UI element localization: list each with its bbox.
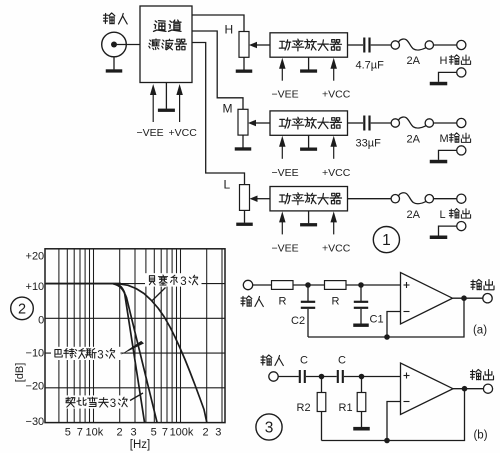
minus input marker (b): [404, 401, 410, 403]
svg-text:H: H: [225, 23, 234, 37]
channel filter box U1: [140, 6, 192, 83]
x axis labels Hz: [65, 427, 222, 439]
potentiometer M: [238, 109, 248, 135]
label power-amplifier text H: [279, 39, 341, 51]
resistor R1 (b): [357, 377, 366, 428]
label M output: [440, 133, 471, 145]
potentiometer H: [239, 32, 249, 58]
svg-text:+VCC: +VCC: [169, 127, 198, 139]
svg-text:C2: C2: [291, 315, 305, 327]
svg-text:+20: +20: [26, 250, 45, 262]
svg-text:2A: 2A: [407, 209, 421, 221]
wire filter to L pot: [192, 43, 245, 185]
ground stub under amp L: [300, 211, 317, 227]
output terminal M: [457, 118, 466, 127]
wire R to R (a): [293, 284, 325, 286]
svg-text:−10: −10: [26, 348, 45, 360]
resistor R first (a): [272, 281, 294, 290]
capacitor C second (b): [338, 370, 343, 383]
output wire (b): [453, 388, 483, 390]
pointer chebyshev label to curve: [130, 393, 143, 401]
fuse 2A (H): [391, 39, 433, 50]
svg-text:−20: −20: [26, 381, 45, 393]
ground stub under filter: [158, 83, 175, 112]
circled number 3: [256, 414, 282, 440]
svg-text:R: R: [279, 296, 287, 308]
svg-text:(a): (a): [473, 325, 487, 337]
circled number 1: [373, 227, 399, 253]
capacitor C1 (a): [354, 285, 368, 324]
wire filter to H pot: [192, 15, 244, 32]
wire amp M to capacitor: [348, 122, 364, 124]
op-amp U1 (a): [401, 273, 453, 325]
output terminal (a): [483, 294, 492, 303]
wire amp H to capacitor: [348, 44, 364, 46]
wire R to opamp (a): [346, 284, 401, 286]
svg-text:L: L: [224, 178, 231, 192]
svg-text:4.7µF: 4.7µF: [356, 60, 385, 72]
ground at output M: [430, 150, 457, 163]
output terminal (b): [483, 384, 492, 393]
power arrow +VCC amp L: [333, 220, 335, 234]
node feedback junction (b): [384, 438, 390, 444]
svg-text:7: 7: [77, 427, 83, 439]
input connector J1: [102, 32, 127, 57]
wire fuse to output M: [434, 122, 457, 124]
svg-text:[Hz]: [Hz]: [130, 439, 150, 451]
node junction 2 (b): [359, 374, 365, 380]
ground below pot L: [236, 210, 253, 226]
svg-text:2: 2: [18, 302, 26, 318]
wire C to opamp (b): [344, 376, 401, 378]
ground below pot M: [235, 135, 252, 151]
svg-text:0: 0: [38, 314, 44, 326]
power arrow +VCC into filter: [179, 93, 181, 122]
resistor R second (a): [325, 281, 347, 290]
ground below input connector: [106, 57, 123, 73]
svg-text:M: M: [440, 133, 449, 145]
node junction 1 (a): [305, 282, 311, 288]
label output (a): [471, 280, 494, 290]
plus input marker (b): [404, 373, 410, 379]
power arrow +VCC amp H: [333, 67, 335, 81]
svg-text:C1: C1: [370, 314, 384, 326]
op-amp U2 (b): [401, 363, 454, 415]
wire input to C (b): [278, 376, 299, 378]
feedback wire minus input (b): [387, 402, 401, 441]
svg-text:+VCC: +VCC: [322, 167, 351, 179]
graph horizontal gridlines: [45, 284, 225, 388]
frequency response graph frame: [45, 249, 225, 423]
svg-text:H: H: [440, 55, 448, 67]
svg-text:10k: 10k: [86, 427, 104, 439]
label butterworth (ba-te-wo-si 3 ci): [51, 347, 121, 362]
power amplifier M: [270, 111, 348, 135]
power arrow -VEE amp H: [281, 67, 283, 81]
output terminal H: [457, 40, 466, 49]
plus input marker (a): [404, 282, 410, 288]
label [dB] rotated: [14, 363, 26, 383]
power arrow -VEE into filter: [152, 93, 154, 122]
fuse 2A (L): [391, 193, 433, 204]
ground at output H: [430, 72, 457, 85]
power arrow +VCC amp M: [333, 145, 335, 159]
svg-text:L: L: [440, 209, 446, 221]
node junction 1 (b): [319, 374, 325, 380]
resistor R2 (b): [317, 377, 326, 441]
svg-text:5: 5: [65, 427, 71, 439]
y axis labels dB: [26, 250, 45, 428]
label L output: [440, 209, 471, 221]
svg-text:33µF: 33µF: [356, 138, 382, 150]
svg-text:−VEE: −VEE: [272, 242, 299, 254]
input terminal (b): [269, 372, 278, 381]
svg-text:3: 3: [97, 349, 103, 361]
svg-text:2: 2: [202, 427, 208, 439]
output wire (a): [453, 297, 483, 299]
wire input to filter: [114, 44, 140, 46]
svg-text:5: 5: [151, 427, 157, 439]
circled number 2: [11, 297, 34, 320]
power amplifier L: [270, 187, 348, 211]
label channel-filter text: [149, 20, 187, 50]
power arrow -VEE amp L: [281, 220, 283, 234]
node feedback junction (a): [384, 334, 390, 340]
wire amp L to fuse: [348, 198, 392, 200]
wiper arrow H: [249, 42, 270, 49]
svg-text:R1: R1: [339, 402, 353, 414]
label H output: [440, 55, 471, 67]
curve butterworth 3rd order: [113, 284, 157, 422]
svg-text:+10: +10: [26, 281, 45, 293]
svg-text:−VEE: −VEE: [272, 167, 299, 179]
curve flat passband +10dB: [46, 283, 121, 285]
node junction 2 (a): [358, 282, 364, 288]
wire capacitor to fuse M: [371, 122, 391, 124]
minus input marker (a): [404, 311, 410, 313]
curve bessel 3rd order: [119, 284, 207, 423]
wire capacitor to fuse H: [371, 44, 391, 46]
ground under C1: [353, 324, 369, 327]
output terminal L: [457, 194, 466, 203]
output return terminal H: [457, 68, 466, 77]
svg-text:3: 3: [265, 420, 274, 437]
svg-text:M: M: [223, 102, 233, 116]
wire fuse to output L: [434, 198, 457, 200]
wiper arrow M: [248, 120, 270, 127]
svg-text:3: 3: [130, 427, 136, 439]
label bessel (bei-sai-er 3 ci): [145, 273, 202, 288]
graph vertical log gridlines: [59, 249, 222, 423]
svg-text:2: 2: [116, 427, 122, 439]
svg-text:1: 1: [382, 232, 391, 249]
potentiometer L: [240, 185, 250, 211]
feedback rail (b): [322, 389, 465, 441]
svg-text:+VCC: +VCC: [322, 89, 351, 101]
svg-text:C: C: [338, 355, 346, 367]
svg-text:(b): (b): [473, 430, 487, 442]
svg-text:2A: 2A: [407, 134, 421, 146]
feedback rail (a): [308, 298, 464, 337]
curve chebyshev 3rd order: [115, 284, 145, 422]
ground below pot H: [236, 57, 253, 73]
svg-text:−30: −30: [26, 416, 45, 428]
svg-text:2A: 2A: [407, 55, 421, 67]
power amplifier H: [270, 33, 348, 57]
pointer bessel label to curve: [152, 288, 165, 301]
fuse 2A (M): [391, 117, 433, 128]
svg-text:+VCC: +VCC: [322, 242, 351, 254]
node output junction (a): [461, 295, 467, 301]
label chebyshev (qi-bi-xue-fu 3 ci): [64, 395, 132, 410]
capacitor 33uF (M): [364, 116, 369, 131]
svg-text:R: R: [332, 296, 340, 308]
svg-text:3: 3: [180, 276, 186, 288]
label input (b): [261, 355, 283, 366]
svg-text:C: C: [300, 355, 308, 367]
wire C to C (b): [306, 376, 337, 378]
feedback wire minus input (a): [387, 312, 401, 338]
wire fuse to output H: [434, 44, 457, 46]
svg-text:100k: 100k: [170, 427, 194, 439]
label input (shu-ru) top left: [104, 13, 128, 24]
svg-text:−VEE: −VEE: [272, 89, 299, 101]
output return terminal M: [457, 146, 466, 155]
power arrow -VEE amp M: [281, 145, 283, 159]
capacitor C2 (a): [301, 285, 315, 337]
output return terminal L: [457, 222, 466, 231]
label input (a): [241, 296, 263, 307]
wiper arrow L: [250, 195, 271, 202]
node output junction (b): [462, 386, 468, 392]
svg-text:[dB]: [dB]: [14, 363, 26, 383]
capacitor C first (b): [300, 370, 305, 383]
wire filter to M pot: [192, 31, 243, 109]
pointer butterworth label to curve: [121, 341, 145, 355]
svg-text:7: 7: [162, 427, 168, 439]
ground stub under amp M: [300, 135, 317, 151]
input terminal (a): [243, 280, 252, 289]
svg-text:3: 3: [110, 398, 116, 410]
label output (b): [471, 370, 494, 380]
label power-amplifier text M: [279, 117, 341, 129]
svg-text:−VEE: −VEE: [137, 127, 164, 139]
wire input to R (a): [253, 284, 272, 286]
svg-text:3: 3: [215, 427, 221, 439]
svg-text:R2: R2: [297, 402, 311, 414]
ground stub under amp H: [300, 57, 317, 73]
ground under R1: [353, 427, 370, 431]
capacitor 4.7uF (H): [364, 38, 369, 53]
ground at output L: [430, 226, 457, 239]
label power-amplifier text L: [279, 193, 341, 205]
